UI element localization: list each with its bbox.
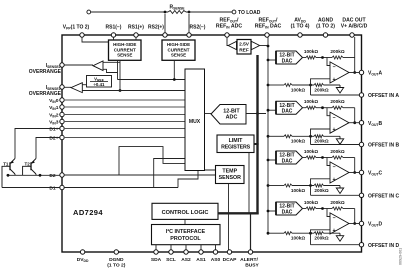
wire sense1 drop a [117,60,119,79]
op-amp B [330,112,349,133]
svg-text:AS2: AS2 [181,257,191,263]
wire D output [349,223,360,225]
wire comp2 out [64,64,94,66]
svg-text:RS1(−): RS1(−) [106,25,122,31]
resistor 100k C top [306,156,316,159]
wire T bottom to D2- [7,174,61,176]
pin VIN1 [60,105,64,109]
wire B top mid [316,107,332,109]
svg-text:RS1(+): RS1(+) [128,25,144,31]
svg-text:−: − [332,115,335,121]
svg-text:200kΩ: 200kΩ [330,149,344,154]
resistor 100k C lower [284,184,292,187]
op-amp C [330,162,349,183]
mux [185,69,205,171]
pin VOUTB [359,121,363,125]
pin AS2 [184,250,188,254]
dac D input wire [268,210,276,212]
svg-text:OVERRANGE: OVERRANGE [29,91,62,97]
buffer ref adc [228,41,236,49]
svg-text:D1−: D1− [49,186,58,192]
pin REFOUT/REFIN DAC [265,33,269,37]
svg-text:ALERT/: ALERT/ [240,257,258,263]
wire D1- to temp [178,170,216,188]
wire C inv input [327,158,330,166]
resistor 200k D feedback [332,207,343,210]
node dac B ref tap [267,109,270,112]
pin AS0 [213,250,217,254]
resistor 100k B lower [284,135,292,138]
svg-text:D2−: D2− [49,173,58,179]
wire D inv input [327,209,330,217]
svg-text:AD7294: AD7294 [73,208,103,217]
svg-text:100kΩ: 100kΩ [304,99,318,104]
node comp junction [119,89,122,92]
svg-text:200kΩ: 200kΩ [330,99,344,104]
wire D2+ [64,137,185,139]
wire D lower right [324,232,341,234]
svg-text:−: − [332,165,335,171]
resistor 100k B top [306,106,316,109]
pin ISENSE2 [60,63,64,67]
wire VIN3 [64,121,185,123]
svg-text:+: + [332,77,335,83]
dac B input wire [268,109,276,111]
wire adc out [246,113,266,115]
wire A top mid [316,57,332,59]
node C inverting [321,156,324,159]
svg-text:MUX: MUX [189,119,201,125]
node C noninv [309,184,312,187]
svg-text:÷0.41: ÷0.41 [94,82,106,87]
wire D noninv riser [311,230,331,245]
wire C feedback [343,157,355,159]
pin DVDD [80,250,84,254]
wire D1- external [2,187,60,189]
node D inverting [321,207,324,210]
supply terminal [87,10,91,14]
dac B 12-bit [276,101,303,114]
pin RS1(+) [134,33,138,37]
wire D2+ external [36,138,60,159]
pin DGND [114,250,118,254]
node B output [353,121,356,124]
pin RS2(+) [163,33,167,37]
pin D2- [60,173,64,177]
wire comp1 upper input [82,84,86,86]
svg-text:DAC: DAC [282,158,293,164]
svg-text:REGISTERS: REGISTERS [221,145,250,151]
pin D2+ [60,135,64,139]
bus horizontal [218,212,259,214]
wire C noninv riser [311,179,331,196]
resistor 200k B feedback [332,106,343,109]
wire ref adc stub [227,37,228,46]
pin OFFSET IN D [359,243,363,247]
wire D lower mid [292,232,314,234]
wire D lower left [268,232,284,234]
AD7294 chip outline [62,35,362,252]
op-amp A [330,62,349,83]
wire D2- riser [119,147,185,175]
svg-text:SENSOR: SENSOR [219,175,242,181]
wire C offset [311,194,360,196]
wire RS1- stub [113,37,115,40]
to-load terminal [232,10,236,14]
comparator ISENSE2 [93,61,103,71]
pin VOUTA [359,70,363,74]
svg-text:06929-001: 06929-001 [399,248,403,265]
svg-text:REFIN DAC: REFIN DAC [255,24,282,30]
wire B feedback [343,107,355,109]
svg-text:I²C INTERFACE: I²C INTERFACE [166,229,206,235]
svg-text:2.5V: 2.5V [239,42,250,48]
vref divider box [87,76,112,88]
wire RS2+ stub [164,14,166,34]
node A output [353,71,356,74]
comparator ISENSE1 [71,83,82,93]
wire C lower mid [292,185,314,187]
pin DCAP [227,250,231,254]
svg-text:200kΩ: 200kΩ [330,49,344,54]
node B noninv [309,135,312,138]
wire VPP stub [82,37,109,42]
wire dac A out [302,57,306,59]
temp sensor [216,166,245,184]
pin OFFSET IN C [359,193,363,197]
pin SDA [154,250,158,254]
pin D1- [60,185,64,189]
svg-text:200kΩ: 200kΩ [314,87,328,92]
wire B lower mid [292,135,314,137]
transistor T1 [9,162,11,170]
resistor 100k D lower [284,232,292,235]
wire top rail left [91,11,168,13]
svg-text:(1 TO 4): (1 TO 4) [291,24,310,30]
pin SCL [169,250,173,254]
svg-text:DAC: DAC [282,58,293,64]
resistor 100k A top [306,56,316,59]
svg-text:100kΩ: 100kΩ [291,139,305,144]
wire dac C out [302,157,306,159]
svg-text:200kΩ: 200kΩ [314,139,328,144]
svg-text:RS2(−): RS2(−) [190,25,206,31]
svg-text:(1 TO 2): (1 TO 2) [107,263,125,269]
wire C lower right [324,185,341,187]
svg-text:PROTOCOL: PROTOCOL [170,236,201,242]
node rail-RS2+ [164,11,167,14]
wire B lower right [324,135,341,137]
dac C input wire [268,159,276,161]
wire isense2 to mux [118,79,186,81]
resistor 200k D lower [314,232,324,235]
svg-text:+: + [332,127,335,133]
wire VIN2 [64,114,185,116]
high-side current sense 1 [109,40,142,60]
svg-text:ADC: ADC [226,115,238,121]
resistor 200k C feedback [332,156,343,159]
svg-text:RS2(+): RS2(+) [148,25,164,31]
wire C top mid [316,157,332,159]
svg-text:D2+: D2+ [49,136,58,142]
pin RS1(-) [111,33,115,37]
pin REFOUT/REFIN ADC [225,33,229,37]
dac A 12-bit [276,51,303,64]
dac C 12-bit [276,151,303,164]
wire C lower left [268,185,284,187]
wire mux to adc [205,113,212,115]
wire comp2 lower input [103,69,118,72]
pin VOUTC [359,170,363,174]
ground A [336,85,343,93]
wire B offset [311,144,360,146]
resistor 100k D top [306,207,316,210]
svg-text:100kΩ: 100kΩ [304,200,318,205]
svg-text:REFIN ADC: REFIN ADC [216,24,243,30]
wire D1+ [64,128,185,130]
svg-text:OFFSET IN D: OFFSET IN D [368,243,400,249]
svg-text:OFFSET IN A: OFFSET IN A [368,93,399,99]
2.5v reference [237,40,251,55]
adc 12-bit [211,105,246,125]
wire A lower left [268,84,284,86]
high-side current sense 2 [162,40,195,60]
wire C feedback drop [354,158,356,173]
node sense2 junction [173,78,176,81]
wire D1+ external [15,129,60,159]
wire RS1+ stub [135,37,137,40]
svg-text:AS0: AS0 [211,257,221,263]
wire A noninv riser [311,79,331,95]
svg-text:DGND: DGND [109,257,124,263]
ground C [336,186,343,194]
svg-text:LIMIT: LIMIT [229,138,244,144]
node C output [353,171,356,174]
dac D 12-bit [276,202,303,215]
node channel A lower tap [267,84,270,87]
pin VIN2 [60,112,64,116]
wire limit down [248,153,250,214]
resistor RSENSE [168,11,186,14]
svg-text:D1+: D1+ [49,127,58,133]
svg-text:200kΩ: 200kΩ [314,236,328,241]
node dac C ref tap [267,159,270,162]
wire D1- riser [154,159,185,188]
wire dac B out [302,107,306,109]
svg-text:TO LOAD: TO LOAD [238,10,261,16]
node channel B lower tap [267,135,270,138]
svg-text:−: − [332,65,335,71]
wire B inv input [327,108,330,116]
pin OFFSET IN B [359,142,363,146]
wire comp2 upper input [103,61,120,63]
wire RS2- stub [188,14,190,34]
node T2 bottom [39,174,42,177]
wire D2- to temp [64,174,216,176]
wire isense1 to mux [82,90,185,92]
wire D feedback [343,208,355,210]
pin AVDD [298,33,302,37]
svg-text:V+ A/B/C/D: V+ A/B/C/D [341,24,368,30]
ground D [336,233,343,241]
control logic [152,203,218,219]
dac A input wire [268,59,276,61]
node A inverting [321,56,324,59]
pin RS2(-) [187,33,191,37]
limit registers [217,135,254,153]
svg-text:CONTROL LOGIC: CONTROL LOGIC [162,210,209,216]
pin VIN0 [60,98,64,102]
svg-text:BUSY: BUSY [245,263,259,269]
wire A lower mid [292,84,314,86]
wire B noninv riser [311,129,331,145]
wire i2c pin stubs [155,245,157,252]
svg-text:100kΩ: 100kΩ [291,87,305,92]
svg-text:OFFSET IN C: OFFSET IN C [368,194,400,200]
wire B lower left [268,135,284,137]
op-amp D [330,213,349,234]
resistor 200k A lower [314,84,324,87]
wire D offset [311,244,360,246]
wire A inv input [327,58,330,66]
svg-text:SDA: SDA [151,257,162,263]
svg-text:−: − [332,216,335,222]
pin OFFSET IN A [359,93,363,97]
wire limit to bus [254,143,259,145]
svg-text:OFFSET IN B: OFFSET IN B [368,143,400,149]
svg-text:+: + [332,177,335,183]
wire B output [349,122,360,124]
bus vertical [256,55,258,214]
wire VIN0 [64,99,185,101]
node rail-RS2- [188,11,191,14]
wire dacout supply drop [354,37,356,73]
svg-text:(1 TO 2): (1 TO 2) [316,24,335,30]
node ref-buffer [267,45,270,48]
resistor 200k C lower [314,184,324,187]
svg-text:200kΩ: 200kΩ [330,200,344,205]
node D noninv [309,232,312,235]
i2c interface [152,225,221,245]
wire A offset [311,94,360,96]
svg-text:T1: T1 [3,161,9,166]
svg-text:AS1: AS1 [196,257,206,263]
node dac D ref tap [267,210,270,213]
node B inverting [321,106,324,109]
svg-text:DAC: DAC [282,109,293,115]
wire dac D out [302,208,306,210]
resistor 200k A feedback [332,56,343,59]
svg-text:DCAP: DCAP [223,257,238,263]
wire control-i2c [184,219,186,224]
svg-text:T2: T2 [25,161,31,166]
svg-text:SENSE: SENSE [117,53,132,58]
svg-text:TEMP: TEMP [222,169,237,175]
wire A output [349,72,360,74]
pin AS1 [199,250,203,254]
pin ALERT/BUSY [248,250,252,254]
transistor T2 [30,162,32,170]
svg-text:DAC: DAC [282,209,293,215]
wire top rail right [186,11,232,13]
node T1 bottom [7,174,10,177]
pin ISENSE1 [60,85,64,89]
wire VIN1 [64,106,185,108]
node D output [353,222,356,225]
svg-text:100kΩ: 100kΩ [304,49,318,54]
wire sense1 drop b [119,60,121,90]
wire D feedback drop [354,209,356,224]
wire A lower right [324,84,341,86]
pin VIN3 [60,119,64,123]
svg-text:200kΩ: 200kΩ [314,188,328,193]
wire sense2 drop [173,60,175,79]
pin D1+ [60,126,64,130]
node A noninv [309,84,312,87]
svg-text:SENSE: SENSE [171,53,186,58]
wire C output [349,172,360,174]
node channel D lower tap [267,232,270,235]
node channel C lower tap [267,184,270,187]
wire temp down / DCAP [228,184,230,253]
svg-text:100kΩ: 100kΩ [291,188,305,193]
pin DAC OUT V+ [350,33,354,37]
wire D1- [64,187,178,189]
wire B feedback drop [354,108,356,123]
svg-text:REF: REF [239,48,249,54]
wire alert drop [250,213,252,252]
wire A feedback [343,57,355,59]
wire ref vertical [267,37,269,233]
svg-text:100kΩ: 100kΩ [304,149,318,154]
node adc-bus [256,112,259,115]
ground B [336,136,343,144]
pin VOUTD [359,221,363,225]
svg-text:SCL: SCL [166,257,176,263]
svg-text:OVERRANGE: OVERRANGE [29,69,62,75]
wire D top mid [316,208,332,210]
wire comp1 out [64,86,72,88]
resistor 200k B lower [314,135,324,138]
pin AGND [323,33,327,37]
wire ref dac out [260,45,268,47]
svg-text:100kΩ: 100kΩ [291,236,305,241]
pin VPP [80,33,84,37]
resistor 100k A lower [284,84,292,87]
node dac A ref tap [267,59,270,62]
buffer ref dac [251,41,259,49]
